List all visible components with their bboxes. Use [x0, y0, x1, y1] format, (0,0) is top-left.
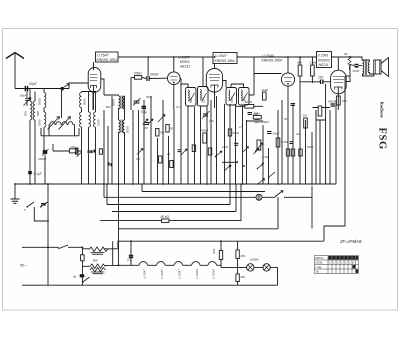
capacitor C9 500pF [147, 73, 160, 82]
resistor R39 [75, 148, 78, 154]
wire switch cluster nets [34, 207, 48, 221]
capacitor C19 [291, 104, 296, 106]
capacitor C2 100pF [38, 149, 49, 184]
svg-text:300: 300 [106, 105, 111, 109]
svg-text:U 2587: U 2587 [160, 269, 164, 279]
heater H2 [148, 262, 166, 279]
wire inner bus [41, 128, 79, 136]
svg-text:0,1µF: 0,1µF [34, 172, 43, 176]
svg-text:5000: 5000 [126, 126, 130, 133]
svg-text:Röhre: Röhre [316, 256, 325, 260]
label text U2044 (tube V4) [262, 54, 282, 63]
secondary coil L3b [80, 112, 82, 184]
svg-text:U 2543: U 2543 [318, 54, 329, 58]
chassis bus [15, 183, 336, 185]
wire mains nets [68, 241, 119, 280]
svg-text:KRENS: KRENS [318, 58, 330, 62]
resistor R34 [208, 148, 211, 155]
capacitor C14 [248, 112, 259, 116]
top supply bus [96, 56, 345, 58]
wire oscillator anode feed [202, 57, 204, 87]
svg-text:50pF: 50pF [29, 82, 38, 86]
svg-text:50kΩ: 50kΩ [201, 129, 209, 133]
svg-text:0,5M: 0,5M [310, 61, 317, 65]
resistor R7 [245, 100, 254, 108]
svg-text:1MΩ: 1MΩ [262, 88, 269, 92]
tuning gang loops [49, 122, 75, 125]
label box U2547 (tube V3) [213, 53, 237, 64]
stepped bus 3 [107, 184, 230, 205]
resistor R21 [310, 61, 317, 77]
capacitor C24 [178, 150, 182, 152]
comb vertical wires to chassis [104, 96, 336, 184]
switch S4 [257, 163, 264, 169]
capacitor C11 [255, 120, 270, 124]
potentiometer P1 [255, 140, 263, 152]
oscillator can OSC1 [186, 88, 197, 107]
wire plate V1 to IF1 [101, 79, 104, 95]
svg-text:U 2547: U 2547 [178, 269, 182, 279]
resistor R140 [53, 144, 82, 153]
svg-text:1M: 1M [296, 132, 301, 136]
detector cluster arrows [236, 147, 259, 167]
svg-text:1MΩ: 1MΩ [222, 145, 229, 149]
resistor R45 [236, 250, 246, 259]
trimmer arrow C23 [182, 149, 188, 155]
wire R7 stubs [236, 105, 263, 107]
svg-text:KRENS 1854: KRENS 1854 [97, 58, 117, 62]
tone capacitor C16 [353, 65, 360, 74]
svg-text:5000: 5000 [307, 145, 314, 149]
coupling coil L2a [38, 89, 46, 108]
label box U2547 (tube V1) [96, 52, 119, 62]
svg-text:50Ω: 50Ω [212, 248, 216, 254]
switch S3 [215, 151, 222, 157]
heater H4 [183, 262, 201, 279]
oscillator can OSC2 [198, 87, 209, 107]
svg-text:5000: 5000 [202, 97, 206, 103]
ballast resistor R41 zigzag [90, 259, 106, 274]
mains line top [22, 246, 58, 248]
svg-text:100: 100 [143, 126, 148, 130]
capacitor C26 [290, 142, 294, 144]
capacitor C27 [234, 143, 238, 145]
svg-text:KRENS 1854: KRENS 1854 [262, 59, 282, 63]
capacitor C-ant 50pF [25, 82, 37, 91]
svg-text:0,5M: 0,5M [281, 140, 288, 144]
svg-text:140: 140 [70, 145, 75, 149]
stepped bus 4 [112, 184, 236, 212]
output transformer TR1 secondary [368, 62, 369, 73]
secondary coil L3a [80, 92, 87, 113]
heater H3 [165, 262, 183, 279]
svg-text:I mg: I mg [316, 265, 322, 269]
svg-text:25: 25 [166, 152, 171, 156]
trimmer arrow C22 [137, 149, 143, 155]
resistor R37 [291, 149, 294, 156]
svg-text:FSG: FSG [377, 128, 388, 150]
tiny value labels scatter [106, 95, 314, 161]
trimmer arrows C25 [143, 119, 154, 125]
label box U2543 (tube V5) [317, 52, 332, 68]
wire left down vertical [118, 184, 120, 265]
coupling coil L2b [38, 108, 46, 151]
dial lamp LA2 [263, 264, 270, 271]
wire detector h [222, 161, 238, 163]
tube V3 envelope [206, 64, 222, 109]
svg-text:5000: 5000 [353, 69, 360, 73]
switch S9 [268, 172, 275, 178]
trimmer arrow C17 [158, 115, 165, 123]
wire under tube V1 [82, 92, 97, 185]
switch S5 [275, 191, 283, 198]
svg-text:150: 150 [342, 99, 347, 103]
tuning gang arrow 2 [59, 117, 71, 130]
svg-text:1000: 1000 [96, 119, 100, 126]
svg-text:50kΩ: 50kΩ [245, 100, 253, 104]
capacitor C20 [73, 274, 84, 278]
trimmer capacitor C1a [20, 89, 31, 107]
svg-text:KREN: KREN [180, 60, 190, 64]
resistor R46 [236, 274, 246, 282]
wire gang stubs [49, 89, 75, 136]
svg-text:5000: 5000 [328, 100, 335, 104]
wire V5 cathode down [337, 105, 339, 110]
capacitor blobs cluster near V1 cathode [88, 150, 96, 154]
svg-text:50: 50 [344, 52, 348, 56]
svg-text:2,5: 2,5 [238, 125, 243, 129]
svg-text:100: 100 [209, 119, 214, 123]
resistor R6 [201, 129, 209, 144]
svg-text:50: 50 [170, 127, 174, 131]
grid coil L4a [89, 92, 91, 151]
resistor R20 [297, 61, 302, 77]
resistor R36 [286, 149, 289, 156]
svg-text:50№: 50№ [146, 95, 152, 99]
capacitor C3 0.1uF [28, 172, 43, 184]
svg-text:5000: 5000 [189, 97, 193, 103]
resistor R35 [228, 129, 240, 136]
svg-text:50: 50 [284, 117, 288, 121]
stepped bus 5 with resistor [100, 184, 241, 221]
svg-text:500: 500 [24, 111, 28, 116]
capacitor blobs near x=108 [108, 163, 113, 167]
junction dots antenna line [26, 88, 28, 90]
wire IF1 links [104, 95, 125, 136]
svg-text:50pF: 50pF [20, 94, 27, 98]
svg-text:U 2044: U 2044 [262, 54, 274, 58]
svg-text:50pF: 50pF [273, 132, 280, 136]
svg-text:Ta: Ta [316, 270, 320, 274]
wire left long vertical [47, 184, 49, 285]
output transformer TR1 primary [363, 60, 367, 75]
svg-text:Radione: Radione [380, 102, 385, 118]
svg-text:ZF=475kHz: ZF=475kHz [339, 239, 363, 244]
svg-text:500pF: 500pF [150, 73, 160, 77]
tuning gang arrow 1 [48, 117, 60, 130]
svg-text:U 2044: U 2044 [195, 269, 199, 279]
svg-text:50kΩ: 50kΩ [134, 72, 142, 76]
svg-text:2500: 2500 [253, 112, 261, 116]
phone jack J1 [256, 194, 262, 200]
svg-text:U/Ua: U/Ua [316, 261, 323, 265]
resistor R12 [262, 88, 269, 100]
tube V5 envelope [331, 57, 347, 105]
resistor R33 [192, 145, 195, 152]
data table [315, 256, 359, 274]
stepped bus 1 [142, 184, 265, 192]
capacitor C18 [143, 123, 149, 131]
capacitor C6 0.1uF [141, 107, 147, 115]
resistor R15 [303, 114, 308, 129]
IF transformer T1 primary [112, 96, 125, 109]
speaker LS1 [374, 58, 389, 77]
resistor R44 [212, 248, 223, 260]
svg-text:1M: 1M [303, 114, 308, 118]
wire R44 top [220, 241, 222, 250]
switch S8 [224, 165, 231, 171]
resistor R5 [134, 72, 142, 80]
svg-text:10n: 10n [318, 76, 324, 80]
mains switch S6 [58, 245, 68, 249]
svg-text:Aw: Aw [92, 259, 98, 263]
wire bus to transformer [345, 57, 362, 60]
svg-text:KRENS 1854: KRENS 1854 [215, 59, 235, 63]
label text U2587 (tube V2) [178, 56, 191, 69]
lamp circuit left rail [237, 241, 239, 285]
heater chain wire [119, 264, 140, 266]
electrolytic C7 [156, 129, 166, 137]
svg-text:4µ: 4µ [73, 275, 77, 279]
IF transformer T2 can B [239, 88, 250, 106]
grid coil L4b [94, 92, 101, 185]
trimmer C5 [133, 98, 141, 106]
stepped bus 7 [119, 240, 325, 242]
heater tail wire [217, 260, 221, 266]
IF transformer T2 can A [226, 88, 237, 106]
capacitor C21 [127, 241, 133, 265]
svg-text:0,5: 0,5 [136, 157, 140, 161]
svg-text:U 2547: U 2547 [215, 54, 228, 58]
cathode resistor R23 [336, 96, 346, 105]
ballast resistor R40 zigzag [89, 247, 108, 254]
dial lamp LA1 [247, 264, 254, 271]
svg-text:U 2547: U 2547 [143, 269, 147, 279]
resistor R32 [170, 161, 173, 168]
svg-text:50 kΩ: 50 kΩ [161, 215, 170, 219]
ground GND [11, 184, 20, 203]
resistor R8 [253, 112, 262, 119]
svg-text:2000: 2000 [38, 119, 42, 126]
svg-text:5000: 5000 [230, 96, 234, 102]
heater H1 [139, 262, 148, 279]
antenna coil L1a [24, 89, 32, 172]
tube V2 envelope [168, 57, 181, 87]
capacitor box C28 [99, 149, 102, 154]
wire V2 grid chain [131, 57, 168, 110]
wire antenna to input [15, 88, 59, 90]
svg-text:0,5M: 0,5M [262, 155, 269, 159]
resistor R30 [161, 215, 170, 223]
antenna A1 [6, 53, 24, 89]
wire grid V1 [59, 83, 88, 89]
resistor R13 [276, 138, 288, 147]
coupling capacitor C15 [318, 76, 324, 85]
resistor R38 [299, 149, 302, 156]
capacitor C10 [202, 111, 210, 119]
svg-text:50∼: 50∼ [20, 264, 27, 268]
wire V3 plate to T2 [223, 81, 244, 88]
capacitor C13 [328, 100, 335, 107]
electrolytic C8 [166, 125, 174, 133]
switch S7 [82, 277, 89, 285]
stepped bus 2 with jack J1 [104, 184, 312, 197]
switch S2 cluster [40, 202, 48, 208]
wire lamp nets [221, 265, 278, 285]
wire V2 cathode to cans [174, 78, 188, 110]
wire V5 grid [300, 81, 330, 83]
IF transformer T1 secondary [119, 120, 130, 134]
wire detector links [312, 108, 330, 121]
resistor R31 [159, 156, 162, 163]
svg-text:0,1: 0,1 [176, 105, 180, 109]
tube V4 envelope [281, 57, 294, 110]
svg-text:U 2587: U 2587 [178, 56, 191, 60]
stepped bus 6 [119, 197, 279, 229]
svg-text:U 2543: U 2543 [212, 269, 216, 279]
svg-text:NE211: NE211 [180, 65, 190, 69]
switch S1 cluster [24, 202, 34, 212]
wire T2 to V4 grid [249, 57, 281, 95]
heater H5 [200, 262, 217, 279]
tube V1 envelope [88, 62, 101, 110]
bottom bus [22, 284, 278, 286]
wire C11 stubs [247, 120, 264, 122]
svg-text:6V/BA: 6V/BA [250, 258, 259, 262]
wire output stage [346, 56, 374, 82]
right border wire [324, 76, 345, 241]
svg-text:U 2547: U 2547 [97, 53, 110, 57]
resistor R14 [318, 106, 322, 116]
svg-text:0,1: 0,1 [127, 258, 131, 262]
wire right step [311, 186, 313, 229]
switch S10 [257, 179, 265, 185]
wire detector nets [300, 57, 326, 120]
svg-text:5000: 5000 [82, 98, 86, 105]
antenna coil L1b [33, 92, 40, 185]
svg-text:500: 500 [36, 111, 40, 116]
small arrows under cluster [77, 153, 82, 158]
svg-text:NE211: NE211 [319, 63, 329, 67]
capacitor C12 [267, 132, 280, 136]
tone resistor R22 zigzag [344, 52, 351, 70]
svg-text:50kΩ: 50kΩ [233, 131, 241, 135]
svg-text:5000: 5000 [38, 98, 42, 105]
resistor R42 [81, 255, 85, 261]
